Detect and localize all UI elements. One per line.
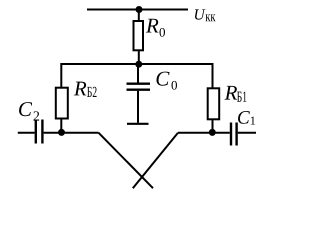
resistor RB2 bbox=[56, 88, 68, 119]
wire right diagonal toward crossing bbox=[133, 133, 178, 189]
node junction left base bbox=[58, 129, 65, 136]
wire from middle rail down to RB2 bbox=[60, 63, 62, 88]
label C2 bbox=[19, 102, 39, 121]
wire from R0 to middle rail bbox=[138, 50, 140, 65]
wire from RB1 to right base node bbox=[212, 119, 214, 133]
wire from right base node to C1 bbox=[178, 132, 230, 134]
wire top supply rail bbox=[87, 9, 188, 11]
wire from middle rail down to RB1 bbox=[212, 63, 214, 89]
label R0 bbox=[146, 19, 165, 37]
wire from C2 to left base node bbox=[44, 132, 99, 134]
label RB1 bbox=[224, 86, 246, 102]
capacitor C0 bbox=[127, 84, 151, 90]
wire stub bar terminating C0 branch bbox=[127, 123, 149, 125]
wire left input lead bbox=[18, 132, 35, 134]
wire from RB2 to left base node bbox=[60, 119, 62, 134]
wire from top rail to R0 bbox=[138, 10, 140, 23]
wire left diagonal toward crossing bbox=[99, 133, 154, 189]
label C1 bbox=[238, 111, 255, 124]
label C0 bbox=[156, 72, 177, 90]
wire right output lead bbox=[238, 132, 256, 134]
wire from C0 down bbox=[137, 91, 139, 123]
wire from middle rail down to C0 bbox=[137, 64, 139, 83]
node junction of middle rail and C0 bbox=[135, 61, 142, 68]
wire middle rail bbox=[61, 63, 212, 65]
node junction right base bbox=[209, 129, 216, 136]
capacitor C2 bbox=[36, 120, 43, 144]
label RB2 bbox=[74, 82, 97, 97]
label Ukk supply voltage bbox=[195, 9, 216, 21]
resistor RB1 bbox=[208, 88, 220, 119]
capacitor C1 bbox=[231, 123, 237, 146]
node junction of top rail and R0 bbox=[136, 6, 143, 13]
resistor R0 bbox=[134, 21, 144, 50]
